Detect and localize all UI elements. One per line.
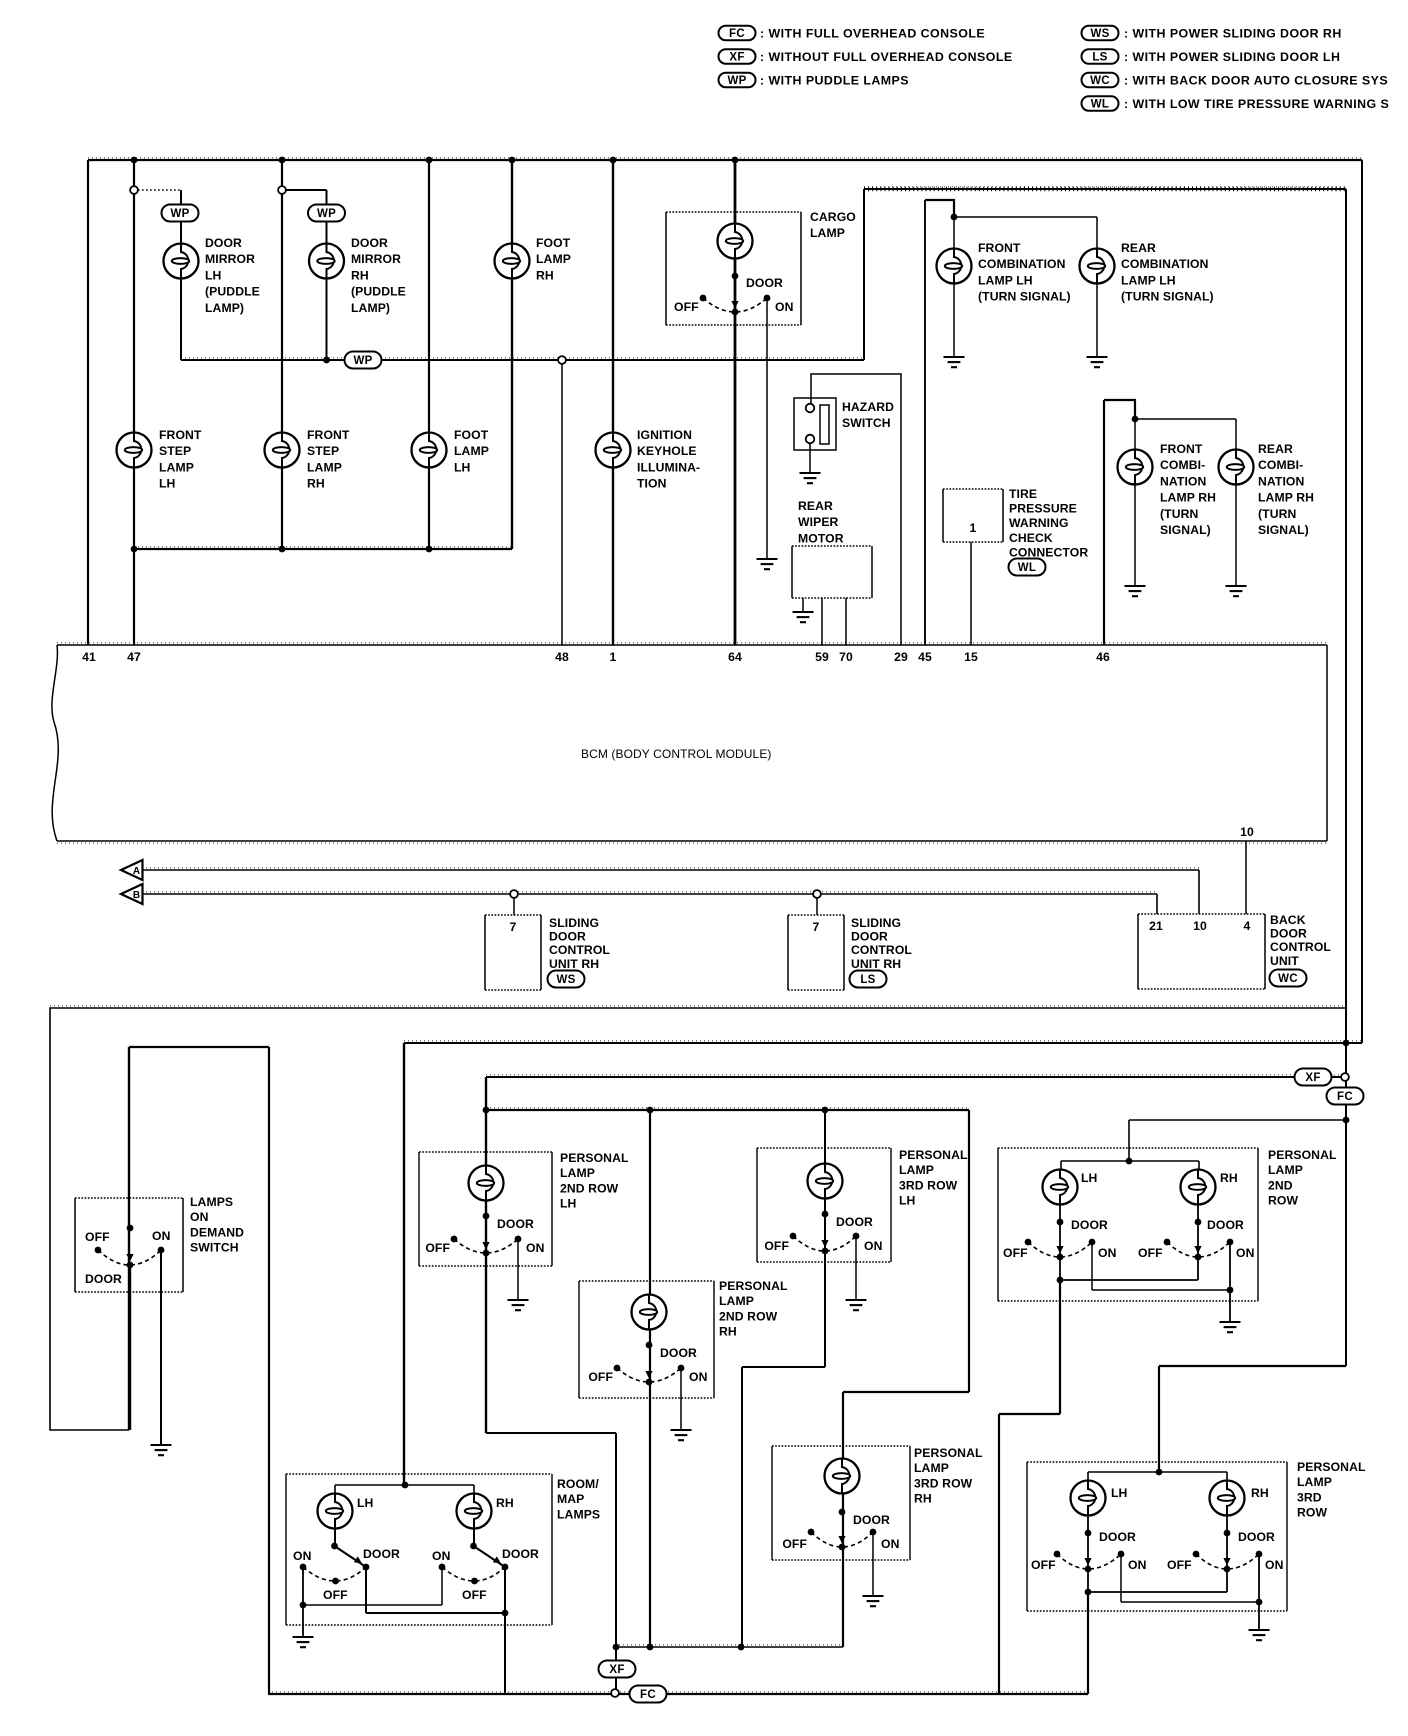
svg-text:45: 45 — [918, 650, 932, 664]
svg-text:BCM (BODY CONTROL MODULE): BCM (BODY CONTROL MODULE) — [581, 747, 772, 761]
svg-text:ON: ON — [775, 300, 793, 314]
svg-text:RH: RH — [1251, 1486, 1269, 1500]
svg-text:7: 7 — [510, 920, 517, 934]
svg-text:B: B — [133, 890, 140, 901]
svg-text:WL: WL — [1091, 98, 1109, 110]
svg-text:ON: ON — [432, 1549, 450, 1563]
svg-text:DOOR: DOOR — [363, 1547, 400, 1561]
svg-text:DOOR: DOOR — [836, 1215, 873, 1229]
svg-text:OFF: OFF — [85, 1230, 110, 1244]
svg-text:OFF: OFF — [1031, 1558, 1056, 1572]
svg-text:DOOR: DOOR — [853, 1513, 890, 1527]
svg-text:: WITH PUDDLE LAMPS: : WITH PUDDLE LAMPS — [760, 73, 909, 87]
svg-text:OFF: OFF — [1167, 1558, 1192, 1572]
svg-text:ON: ON — [1236, 1246, 1254, 1260]
svg-text:10: 10 — [1240, 825, 1254, 839]
svg-text:4: 4 — [1244, 919, 1251, 933]
svg-text:LS: LS — [1092, 51, 1107, 63]
svg-text:RH: RH — [496, 1496, 514, 1510]
svg-text:WP: WP — [727, 75, 746, 87]
svg-text:WS: WS — [556, 974, 575, 986]
svg-text:LS: LS — [860, 974, 875, 986]
svg-text:ON: ON — [526, 1241, 544, 1255]
svg-text:XF: XF — [609, 1664, 624, 1676]
svg-text:RH: RH — [1220, 1171, 1238, 1185]
svg-text:7: 7 — [813, 920, 820, 934]
svg-text:: WITH POWER SLIDING DOOR LH: : WITH POWER SLIDING DOOR LH — [1124, 50, 1340, 64]
svg-text:FC: FC — [729, 28, 745, 40]
svg-text:A: A — [133, 866, 140, 877]
svg-text:10: 10 — [1193, 919, 1207, 933]
svg-text:XF: XF — [729, 51, 744, 63]
svg-text:DOOR: DOOR — [85, 1272, 122, 1286]
svg-text:46: 46 — [1096, 650, 1110, 664]
svg-text:1: 1 — [610, 650, 617, 664]
svg-text:DOOR: DOOR — [1099, 1530, 1136, 1544]
svg-text:WC: WC — [1278, 973, 1298, 985]
svg-text:WP: WP — [353, 355, 372, 367]
svg-text:ON: ON — [1128, 1558, 1146, 1572]
svg-text:OFF: OFF — [425, 1241, 450, 1255]
svg-text:DOOR: DOOR — [746, 276, 783, 290]
svg-text:41: 41 — [82, 650, 96, 664]
svg-text:ON: ON — [881, 1537, 899, 1551]
svg-text:OFF: OFF — [764, 1239, 789, 1253]
svg-text:48: 48 — [555, 650, 569, 664]
svg-text:OFF: OFF — [782, 1537, 807, 1551]
svg-text:: WITH FULL OVERHEAD CONSOLE: : WITH FULL OVERHEAD CONSOLE — [760, 26, 985, 40]
svg-text:47: 47 — [127, 650, 141, 664]
svg-text:OFF: OFF — [1138, 1246, 1163, 1260]
svg-text:OFF: OFF — [323, 1588, 348, 1602]
svg-text:WP: WP — [317, 208, 336, 220]
svg-text:ON: ON — [689, 1370, 707, 1384]
svg-text:XF: XF — [1305, 1072, 1320, 1084]
svg-text:LH: LH — [357, 1496, 373, 1510]
svg-text:ON: ON — [864, 1239, 882, 1253]
svg-text:WS: WS — [1090, 28, 1109, 40]
svg-text:OFF: OFF — [588, 1370, 613, 1384]
svg-text:DOOR: DOOR — [1238, 1530, 1275, 1544]
svg-text:ON: ON — [1098, 1246, 1116, 1260]
svg-text:DOOR: DOOR — [660, 1346, 697, 1360]
svg-text:59: 59 — [815, 650, 829, 664]
svg-text:: WITH BACK DOOR AUTO CLOSURE: : WITH BACK DOOR AUTO CLOSURE SYS — [1124, 73, 1388, 87]
svg-text:: WITH LOW TIRE PRESSURE WARNI: : WITH LOW TIRE PRESSURE WARNING S — [1124, 97, 1389, 111]
svg-text:WC: WC — [1090, 75, 1110, 87]
svg-text:OFF: OFF — [674, 300, 699, 314]
svg-text:70: 70 — [839, 650, 853, 664]
svg-text:DOOR: DOOR — [502, 1547, 539, 1561]
svg-text:OFF: OFF — [462, 1588, 487, 1602]
svg-text:64: 64 — [728, 650, 742, 664]
svg-text:DOOR: DOOR — [1207, 1218, 1244, 1232]
svg-text:15: 15 — [964, 650, 978, 664]
svg-text:ON: ON — [1265, 1558, 1283, 1572]
svg-text:21: 21 — [1149, 919, 1163, 933]
svg-text:LH: LH — [1081, 1171, 1097, 1185]
svg-text:1: 1 — [970, 521, 977, 535]
svg-text:FC: FC — [640, 1689, 656, 1701]
svg-text:WP: WP — [170, 208, 189, 220]
svg-text:OFF: OFF — [1003, 1246, 1028, 1260]
svg-text:: WITHOUT FULL OVERHEAD CONSOL: : WITHOUT FULL OVERHEAD CONSOLE — [760, 50, 1013, 64]
svg-text:ON: ON — [152, 1229, 170, 1243]
svg-text:ON: ON — [293, 1549, 311, 1563]
svg-text:LH: LH — [1111, 1486, 1127, 1500]
svg-text:DOOR: DOOR — [497, 1217, 534, 1231]
svg-text:29: 29 — [894, 650, 908, 664]
svg-text:FC: FC — [1337, 1091, 1353, 1103]
svg-text:DOOR: DOOR — [1071, 1218, 1108, 1232]
svg-text:WL: WL — [1018, 562, 1036, 574]
svg-text:: WITH POWER SLIDING DOOR RH: : WITH POWER SLIDING DOOR RH — [1124, 26, 1342, 40]
